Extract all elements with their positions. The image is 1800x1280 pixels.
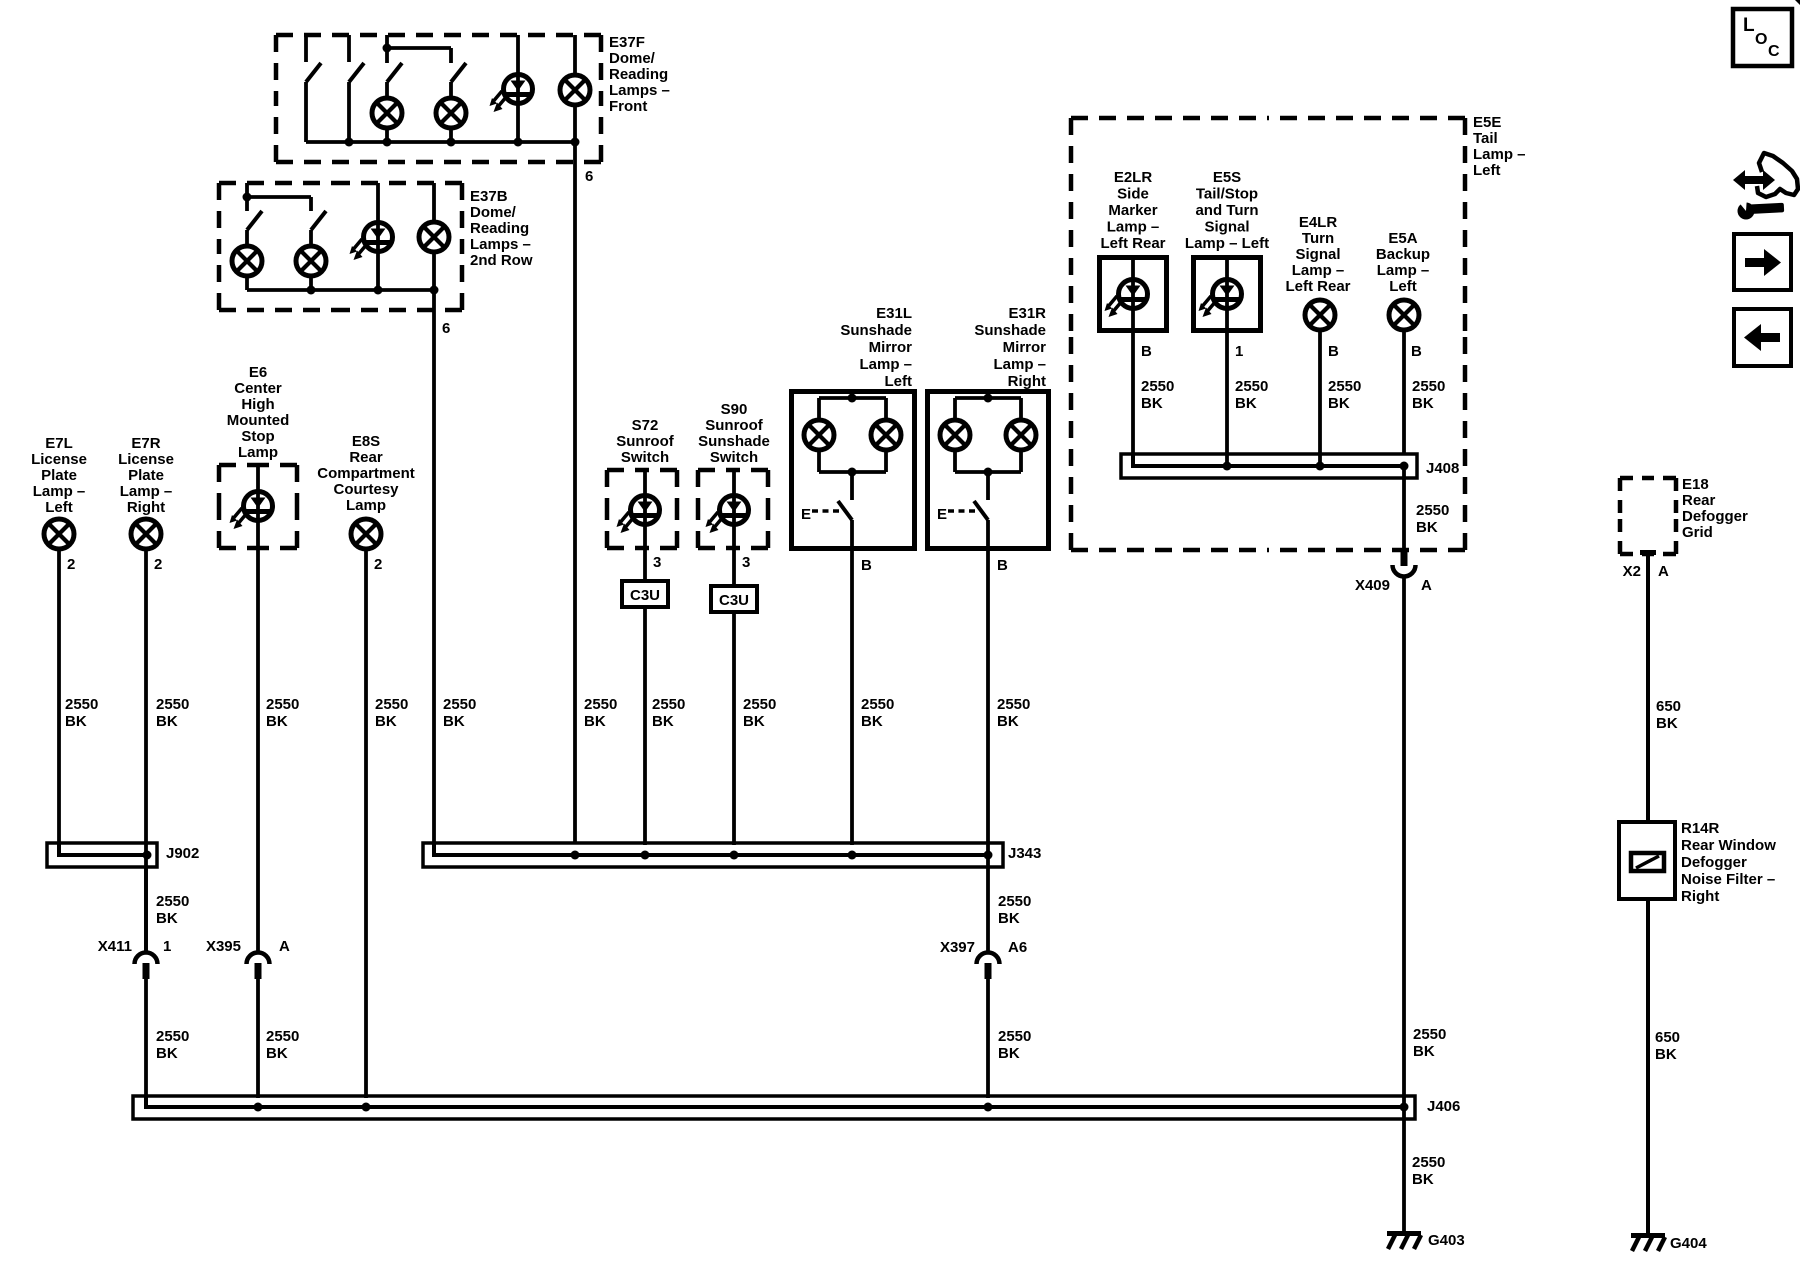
wire E7R through J902 [144, 867, 148, 952]
tail lamp left E5E dashed box [1071, 116, 1268, 121]
svg-text:Rear: Rear [1682, 492, 1716, 509]
ground G404 [1631, 1233, 1665, 1251]
svg-text:Left: Left [885, 373, 913, 390]
svg-text:BK: BK [266, 713, 288, 730]
svg-text:Lamp: Lamp [346, 497, 386, 514]
E31R output wire pin B through J343 to X397 [986, 520, 990, 952]
svg-text:E6: E6 [249, 364, 267, 381]
wire E8S to J406 [364, 551, 368, 1098]
E31R box [928, 392, 1049, 549]
E37B output wire pin 6 [432, 254, 436, 843]
lamp 2 in E37F [436, 98, 466, 128]
wire through S72 [643, 470, 647, 583]
svg-text:Left: Left [1389, 278, 1417, 295]
svg-text:Reading: Reading [470, 220, 529, 237]
svg-text:License: License [31, 451, 87, 468]
svg-text:Lamp –: Lamp – [859, 356, 912, 373]
svg-text:BK: BK [1412, 1171, 1434, 1188]
svg-text:Defogger: Defogger [1681, 854, 1747, 871]
svg-text:BK: BK [1235, 395, 1257, 412]
svg-text:X2: X2 [1623, 563, 1641, 580]
splice sleeve C3U left [622, 581, 668, 607]
svg-text:E: E [801, 506, 811, 523]
inline connector X411 [135, 953, 158, 980]
E5S box [1194, 258, 1261, 331]
svg-text:Right: Right [1681, 888, 1719, 905]
svg-text:2550: 2550 [743, 696, 776, 713]
svg-text:E5S: E5S [1213, 169, 1241, 186]
svg-text:Left Rear: Left Rear [1100, 235, 1165, 252]
svg-text:2550: 2550 [1141, 378, 1174, 395]
wire X395 to J406 [256, 979, 260, 1098]
svg-text:BK: BK [997, 713, 1019, 730]
svg-text:6: 6 [442, 320, 450, 337]
E31L top stub [850, 391, 854, 398]
wire lamp1 to bus E37B [245, 278, 249, 290]
E2LR box [1100, 258, 1167, 331]
E37F bus junction dots [345, 138, 354, 147]
svg-text:2550: 2550 [584, 696, 617, 713]
E31L bottom tee [819, 470, 886, 474]
svg-text:2550: 2550 [997, 696, 1030, 713]
svg-text:Left: Left [1473, 162, 1501, 179]
lamp 2 in E37B [296, 246, 326, 276]
svg-text:BK: BK [266, 1045, 288, 1062]
svg-text:E: E [937, 506, 947, 523]
svg-text:Lamp –: Lamp – [1473, 146, 1526, 163]
svg-text:Signal: Signal [1295, 246, 1340, 263]
svg-text:2550: 2550 [156, 1028, 189, 1045]
svg-text:R14R: R14R [1681, 820, 1720, 837]
svg-text:2550: 2550 [156, 696, 189, 713]
svg-text:L: L [1743, 15, 1755, 36]
svg-text:E7L: E7L [45, 435, 73, 452]
lamp 3 wire in E37F [573, 35, 577, 73]
svg-text:Rear Window: Rear Window [1681, 837, 1776, 854]
wire S90 to J343 [732, 612, 736, 845]
svg-text:B: B [1141, 343, 1152, 360]
J406 junction dots [254, 1103, 263, 1112]
E37F output wire pin 6 [573, 107, 577, 843]
svg-text:Right: Right [1008, 373, 1046, 390]
svg-text:2550: 2550 [998, 893, 1031, 910]
splice pack J902 [47, 843, 157, 867]
svg-text:650: 650 [1656, 698, 1681, 715]
wire E5A to J408 [1402, 332, 1406, 454]
priority wire E37F [387, 46, 451, 50]
inline connector X409 [1393, 550, 1416, 577]
svg-text:BK: BK [584, 713, 606, 730]
lamp E8S [351, 519, 381, 549]
LED S72 [617, 496, 660, 534]
svg-text:Center: Center [234, 380, 282, 397]
page corner mark [1795, 0, 1800, 5]
S90 dashed box [698, 468, 733, 473]
lamp left in E31L [804, 420, 834, 450]
svg-text:Lamp –: Lamp – [33, 483, 86, 500]
svg-text:BK: BK [861, 713, 883, 730]
svg-text:E37B: E37B [470, 188, 508, 205]
svg-text:BK: BK [998, 910, 1020, 927]
svg-text:E5E: E5E [1473, 114, 1501, 131]
svg-text:Marker: Marker [1108, 202, 1157, 219]
svg-text:X411: X411 [98, 938, 132, 955]
svg-text:2550: 2550 [375, 696, 408, 713]
E31L top junction dot [848, 394, 857, 403]
svg-text:Lamp –: Lamp – [1107, 219, 1160, 236]
svg-text:Plate: Plate [128, 467, 164, 484]
svg-text:1: 1 [1235, 343, 1243, 360]
svg-text:3: 3 [653, 554, 661, 571]
lamp E5A [1389, 300, 1419, 330]
svg-text:2: 2 [154, 556, 162, 573]
lamp E7L [44, 519, 74, 549]
svg-text:Switch: Switch [710, 449, 758, 466]
wire S72 to J343 [643, 607, 647, 845]
switch 3 in E37F [385, 35, 389, 63]
svg-text:J408: J408 [1426, 460, 1459, 477]
inline connector X395 [247, 953, 270, 980]
splice pack J343 [423, 843, 1003, 867]
svg-text:Left: Left [45, 499, 73, 516]
svg-text:650: 650 [1655, 1029, 1680, 1046]
svg-text:2550: 2550 [266, 696, 299, 713]
svg-text:Backup: Backup [1376, 246, 1430, 263]
svg-text:2550: 2550 [652, 696, 685, 713]
svg-text:C: C [1768, 43, 1780, 60]
lamp 3 in E37B [419, 222, 449, 252]
svg-text:C3U: C3U [630, 587, 660, 604]
svg-text:X395: X395 [206, 938, 241, 955]
E31R top junction dot [984, 394, 993, 403]
svg-text:2: 2 [67, 556, 75, 573]
E37F bottom bus [306, 140, 575, 144]
svg-text:Lamp: Lamp [238, 444, 278, 461]
LOC legend box [1733, 9, 1792, 66]
svg-text:BK: BK [375, 713, 397, 730]
lamp E4LR [1305, 300, 1335, 330]
svg-text:2nd Row: 2nd Row [470, 252, 533, 269]
lamp right in E31L [871, 420, 901, 450]
svg-text:A: A [279, 938, 290, 955]
E31L branch wires upper [817, 398, 821, 418]
svg-text:Lamps –: Lamps – [470, 236, 531, 253]
E31R branch wires upper [953, 398, 957, 418]
svg-text:Sunshade: Sunshade [698, 433, 770, 450]
svg-text:BK: BK [1416, 519, 1438, 536]
svg-text:A: A [1658, 563, 1669, 580]
svg-text:High: High [241, 396, 274, 413]
wire lamp1 to bus [385, 130, 389, 142]
svg-text:BK: BK [1655, 1046, 1677, 1063]
svg-text:Lamp –: Lamp – [993, 356, 1046, 373]
svg-text:1: 1 [163, 938, 171, 955]
lamp E7R [131, 519, 161, 549]
svg-text:G404: G404 [1670, 1235, 1707, 1252]
junction dot priority E37B [243, 193, 252, 202]
svg-text:BK: BK [1141, 395, 1163, 412]
svg-text:A6: A6 [1008, 939, 1027, 956]
svg-text:and Turn: and Turn [1195, 202, 1258, 219]
wire J408 to X409 [1402, 466, 1406, 552]
svg-text:Sunroof: Sunroof [705, 417, 763, 434]
E31L box [792, 392, 915, 549]
forward reference arrow box [1734, 234, 1791, 290]
svg-text:6: 6 [585, 168, 593, 185]
switch 2 in E37B [311, 211, 326, 230]
E31L switch [850, 472, 854, 500]
switch 1 in E37B [245, 183, 249, 211]
svg-text:B: B [861, 557, 872, 574]
svg-text:E18: E18 [1682, 476, 1709, 493]
LED in E37F [490, 75, 533, 113]
E18 terminal bar [1640, 550, 1656, 555]
backward reference arrow box [1734, 309, 1791, 366]
svg-text:Mirror: Mirror [1003, 339, 1047, 356]
wire E7R to X411 [144, 551, 148, 952]
svg-text:Dome/: Dome/ [609, 50, 656, 67]
svg-text:X409: X409 [1355, 577, 1390, 594]
switch 2 in E37F [347, 35, 351, 62]
LED E2LR [1105, 280, 1148, 318]
priority wire E37B [247, 195, 311, 199]
svg-text:Dome/: Dome/ [470, 204, 517, 221]
svg-text:BK: BK [1328, 395, 1350, 412]
splice sleeve C3U right [711, 586, 757, 612]
dome/reading lamps 2nd row E37B box [219, 181, 341, 186]
svg-text:2550: 2550 [1416, 502, 1449, 519]
svg-text:3: 3 [742, 554, 750, 571]
svg-text:X397: X397 [940, 939, 975, 956]
svg-text:Lamp –: Lamp – [120, 483, 173, 500]
splice pack J408 [1121, 454, 1417, 478]
E31R branch wires lower [953, 452, 957, 472]
svg-text:Lamps –: Lamps – [609, 82, 670, 99]
noise filter R14R box [1619, 822, 1675, 899]
svg-text:J902: J902 [166, 845, 199, 862]
svg-text:BK: BK [443, 713, 465, 730]
J902 junction dot [143, 851, 152, 860]
svg-text:E37F: E37F [609, 34, 645, 51]
R14R filter element [1631, 853, 1664, 871]
svg-text:S72: S72 [632, 417, 659, 434]
E31R top stub [986, 391, 990, 398]
svg-text:E7R: E7R [131, 435, 160, 452]
svg-text:BK: BK [65, 713, 87, 730]
svg-text:2550: 2550 [1412, 1154, 1445, 1171]
lamp right in E31R [1006, 420, 1036, 450]
svg-text:2550: 2550 [1328, 378, 1361, 395]
E37B bottom bus [247, 288, 434, 292]
J343 junction dots [571, 851, 580, 860]
svg-text:S90: S90 [721, 401, 748, 418]
E31R bottom junction dot [984, 468, 993, 477]
svg-text:Mounted: Mounted [227, 412, 289, 429]
LED E6 [230, 492, 273, 530]
svg-text:Reading: Reading [609, 66, 668, 83]
svg-text:Tail/Stop: Tail/Stop [1196, 186, 1258, 203]
S72 dashed box [607, 468, 642, 473]
svg-text:E5A: E5A [1388, 230, 1417, 247]
wire E4LR to J408 [1318, 332, 1322, 466]
svg-text:E31L: E31L [876, 305, 912, 322]
svg-text:2550: 2550 [156, 893, 189, 910]
junction dot priority E37F [383, 44, 392, 53]
svg-text:BK: BK [1656, 715, 1678, 732]
svg-text:Side: Side [1117, 186, 1149, 203]
svg-text:E8S: E8S [352, 433, 380, 450]
svg-text:BK: BK [156, 910, 178, 927]
lamp 3 in E37F [560, 75, 590, 105]
svg-text:2550: 2550 [1412, 378, 1445, 395]
svg-text:B: B [997, 557, 1008, 574]
E37B bus junction dots [307, 286, 316, 295]
svg-text:2550: 2550 [861, 696, 894, 713]
E6 dashed box [219, 463, 258, 468]
switch 1 in E37F [304, 35, 308, 62]
svg-text:Right: Right [127, 499, 165, 516]
svg-text:Signal: Signal [1204, 219, 1249, 236]
svg-text:BK: BK [1412, 395, 1434, 412]
LED in E37B [350, 223, 393, 261]
svg-text:Stop: Stop [241, 428, 274, 445]
inline connector X397 [977, 953, 1000, 980]
wire E18 to R14R [1646, 554, 1650, 822]
vehicle navigation icon [1745, 176, 1763, 184]
svg-text:Sunroof: Sunroof [616, 433, 674, 450]
svg-text:G403: G403 [1428, 1232, 1465, 1249]
svg-text:Left Rear: Left Rear [1285, 278, 1350, 295]
LED wire in E37F [516, 35, 520, 142]
svg-text:E31R: E31R [1008, 305, 1046, 322]
lamp 1 in E37B [232, 246, 262, 276]
wire lamp2 to bus [449, 130, 453, 142]
svg-text:BK: BK [156, 713, 178, 730]
svg-text:O: O [1755, 31, 1767, 48]
svg-text:2550: 2550 [998, 1028, 1031, 1045]
svg-text:Front: Front [609, 98, 647, 115]
svg-text:Mirror: Mirror [869, 339, 913, 356]
svg-text:2550: 2550 [266, 1028, 299, 1045]
rear defogger grid E18 dashed box [1620, 476, 1648, 481]
svg-text:J406: J406 [1427, 1098, 1460, 1115]
lamp 1 in E37F [372, 98, 402, 128]
svg-text:BK: BK [1413, 1043, 1435, 1060]
E31L bottom junction dot [848, 468, 857, 477]
wire through E2LR to J408 [1131, 257, 1135, 466]
lamp 3 wire in E37B [432, 183, 436, 220]
svg-text:Sunshade: Sunshade [840, 322, 912, 339]
svg-text:2550: 2550 [443, 696, 476, 713]
svg-text:Lamp – Left: Lamp – Left [1185, 235, 1269, 252]
svg-text:BK: BK [652, 713, 674, 730]
svg-text:BK: BK [998, 1045, 1020, 1062]
dome/reading lamps front E37F box [276, 33, 439, 38]
svg-text:2: 2 [374, 556, 382, 573]
svg-text:A: A [1421, 577, 1432, 594]
svg-text:BK: BK [156, 1045, 178, 1062]
svg-text:BK: BK [743, 713, 765, 730]
splice pack J406 [133, 1096, 1415, 1119]
svg-text:Tail: Tail [1473, 130, 1498, 147]
E31R switch [986, 472, 990, 500]
svg-text:Switch: Switch [621, 449, 669, 466]
svg-text:Defogger: Defogger [1682, 508, 1748, 525]
svg-text:2550: 2550 [65, 696, 98, 713]
svg-text:Compartment: Compartment [317, 465, 415, 482]
svg-text:Noise Filter –: Noise Filter – [1681, 871, 1775, 888]
E31R top tee [955, 396, 1021, 400]
E31L branch wires lower [817, 452, 821, 472]
wire E7L to J902 [57, 551, 61, 845]
svg-text:B: B [1411, 343, 1422, 360]
svg-text:Lamp –: Lamp – [1377, 262, 1430, 279]
svg-text:Plate: Plate [41, 467, 77, 484]
wire lamp2 to bus E37B [309, 278, 313, 290]
svg-text:E2LR: E2LR [1114, 169, 1153, 186]
J408 junction dots [1223, 462, 1232, 471]
svg-text:E4LR: E4LR [1299, 214, 1338, 231]
wire through S90 [732, 470, 736, 588]
wire X397 to J406 [986, 979, 990, 1098]
lamp left in E31R [940, 420, 970, 450]
switch 4 in E37F [451, 63, 466, 82]
wire X409 to G403 through J406 [1402, 578, 1406, 1232]
E31R bottom tee [955, 470, 1021, 474]
E31L top tee [819, 396, 886, 400]
LED S90 [706, 496, 749, 534]
svg-text:2550: 2550 [1413, 1026, 1446, 1043]
svg-text:J343: J343 [1008, 845, 1041, 862]
wire through E6 to X395 [256, 465, 260, 952]
svg-text:Sunshade: Sunshade [974, 322, 1046, 339]
wire R14R to G404 [1646, 899, 1650, 1234]
svg-text:2550: 2550 [1235, 378, 1268, 395]
ground G403 [1387, 1231, 1421, 1249]
svg-text:License: License [118, 451, 174, 468]
LED wire in E37B [376, 183, 380, 290]
wire through E5S to J408 [1225, 257, 1229, 466]
svg-text:Courtesy: Courtesy [333, 481, 399, 498]
wire X411 to J406 [144, 979, 148, 1098]
svg-text:C3U: C3U [719, 592, 749, 609]
svg-text:Rear: Rear [349, 449, 383, 466]
svg-text:Turn: Turn [1302, 230, 1334, 247]
LED E5S [1199, 280, 1242, 318]
svg-text:Lamp –: Lamp – [1292, 262, 1345, 279]
svg-text:Grid: Grid [1682, 524, 1713, 541]
svg-text:B: B [1328, 343, 1339, 360]
E31L output wire pin B [850, 520, 854, 845]
